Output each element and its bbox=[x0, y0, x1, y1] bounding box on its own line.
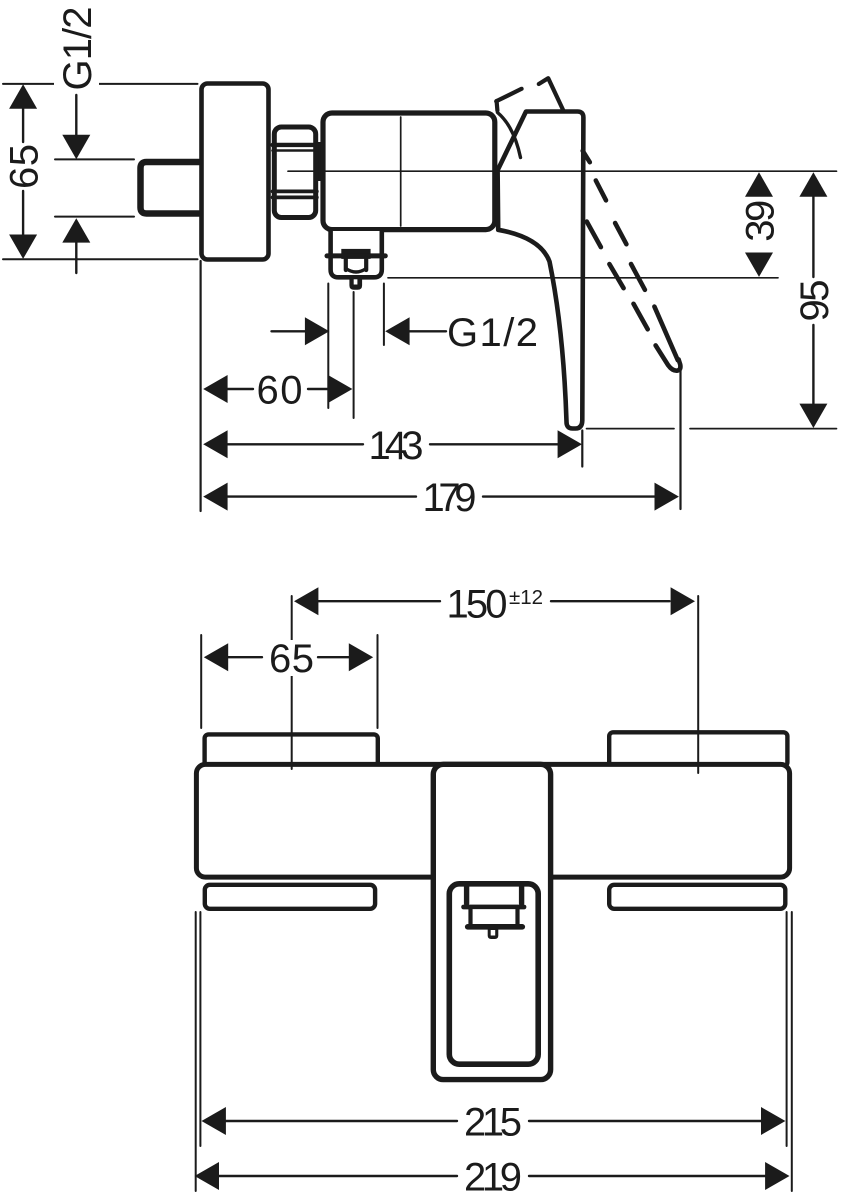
svg-text:65: 65 bbox=[3, 144, 47, 189]
svg-text:65: 65 bbox=[269, 637, 314, 681]
svg-text:215: 215 bbox=[464, 1101, 522, 1145]
svg-text:G1/2: G1/2 bbox=[447, 311, 538, 355]
svg-text:39: 39 bbox=[739, 200, 783, 242]
svg-text:219: 219 bbox=[464, 1156, 522, 1200]
svg-text:150: 150 bbox=[447, 583, 508, 627]
svg-text:143: 143 bbox=[369, 424, 424, 468]
svg-text:G1/2: G1/2 bbox=[56, 7, 100, 91]
svg-text:95: 95 bbox=[793, 280, 837, 322]
svg-text:±12: ±12 bbox=[509, 586, 543, 609]
svg-text:179: 179 bbox=[423, 476, 477, 520]
svg-text:60: 60 bbox=[257, 369, 303, 413]
